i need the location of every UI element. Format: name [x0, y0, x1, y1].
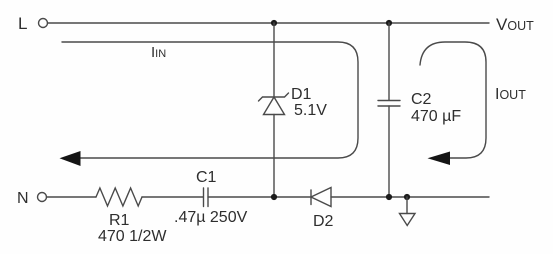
- svg-text:D2: D2: [313, 213, 334, 230]
- diode D2: [310, 190, 312, 205]
- resistor R1: [96, 188, 142, 206]
- node bottom-C2 junction: [386, 194, 392, 200]
- svg-text:N: N: [17, 190, 29, 207]
- wire C1 to D2: [208, 196, 311, 198]
- wire R1 to C1: [142, 196, 203, 198]
- svg-text:IIN: IIN: [151, 44, 166, 61]
- svg-text:470 µF: 470 µF: [411, 108, 461, 125]
- wire D2 to right end: [331, 196, 489, 198]
- terminal N: [38, 193, 47, 202]
- wire C2 branch upper: [388, 23, 390, 100]
- svg-text:.47µ 250V: .47µ 250V: [174, 209, 248, 226]
- wire N to R1: [47, 196, 97, 198]
- wire IIN arrowhead: [60, 151, 81, 166]
- svg-text:C2: C2: [411, 91, 432, 108]
- wire D1 branch upper: [273, 23, 275, 97]
- svg-text:L: L: [18, 14, 27, 33]
- wire top rail: [48, 22, 490, 24]
- node ground junction: [404, 194, 410, 200]
- svg-text:C1: C1: [196, 169, 217, 186]
- node top-C2 junction: [386, 20, 392, 26]
- svg-text:D1: D1: [291, 86, 312, 103]
- zener diode D1: [259, 93, 289, 101]
- node top-D1 junction: [271, 20, 277, 26]
- node bottom-D1 junction: [271, 194, 277, 200]
- wire IIN current loop: [62, 42, 358, 158]
- terminal L: [39, 19, 48, 28]
- capacitor C1: [203, 188, 205, 207]
- wire IOUT arrowhead: [428, 152, 451, 166]
- wire D1 branch lower: [273, 115, 275, 198]
- ground: [406, 197, 408, 214]
- wire C2 branch lower: [388, 106, 390, 197]
- svg-text:470 1/2W: 470 1/2W: [98, 228, 167, 245]
- wire IOUT current loop: [420, 42, 486, 158]
- capacitor C2: [378, 100, 400, 102]
- svg-text:IOUT: IOUT: [495, 86, 526, 103]
- svg-text:5.1V: 5.1V: [294, 102, 327, 119]
- svg-text:VOUT: VOUT: [496, 15, 534, 34]
- svg-text:R1: R1: [109, 212, 130, 229]
